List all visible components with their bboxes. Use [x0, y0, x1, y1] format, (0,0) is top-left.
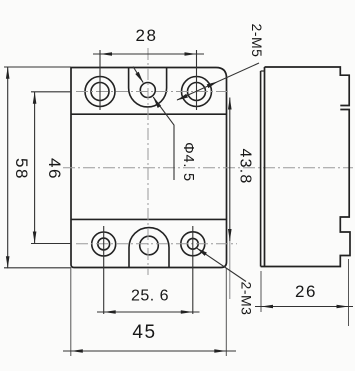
front view bottom flange line	[71, 218, 227, 220]
dimension 45 left arrow	[71, 349, 83, 353]
dimension 43.8 top arrow	[228, 98, 232, 110]
svg-text:46: 46	[45, 158, 64, 180]
dimension 46 bottom extension line	[31, 243, 71, 245]
bottom center mounting dome	[129, 228, 169, 268]
dimension 46 line	[34, 92, 36, 244]
svg-text:58: 58	[12, 158, 31, 180]
top-right hole outer circle	[182, 77, 212, 107]
side view outline	[261, 67, 350, 267]
dimension 25.6 left arrow	[104, 310, 116, 314]
bottom-left hole outer circle	[92, 232, 116, 256]
top-left hole vertical centerline / 28 extension	[99, 50, 101, 110]
dimension 46 bottom arrow	[33, 232, 37, 244]
dimension 28 line	[93, 53, 204, 55]
dimension 58 top arrow	[6, 67, 10, 79]
svg-text:45: 45	[132, 322, 156, 343]
dimension 25.6 right arrow	[181, 310, 193, 314]
dimension 43.8 line	[229, 98, 231, 242]
bottom-left hole inner circle	[98, 238, 110, 250]
leader 2-M5 ne arrow	[207, 82, 218, 89]
top-right hole inner circle	[188, 83, 206, 101]
dimension 43.8 bottom arrow	[228, 229, 232, 241]
top slot circle	[140, 83, 155, 98]
top holes horizontal centerline	[76, 91, 228, 93]
dimension 43.8 tail line	[229, 241, 231, 299]
dimension 28 left arrow	[100, 52, 112, 56]
leader phi4.5 upper segment	[133, 67, 143, 83]
vertical centerline front view	[147, 48, 149, 275]
leader 2-M3 arrow	[196, 248, 207, 256]
dimension 58 top extension line	[4, 66, 71, 68]
dimension 45 right extension line	[225, 268, 227, 356]
dimension 58 bottom arrow	[6, 256, 10, 268]
bottom-right hole inner circle	[187, 238, 198, 249]
top-right hole vertical centerline / 28 extension	[196, 50, 198, 110]
dimension 46 top extension line	[31, 91, 71, 93]
dimension 58 bottom extension line	[4, 267, 71, 269]
bottom dome circle	[140, 236, 159, 255]
dimension 45 line	[63, 350, 236, 352]
svg-text:43.8: 43.8	[237, 149, 254, 185]
dimension 45 right arrow	[214, 349, 226, 353]
dimension 58 line	[7, 67, 9, 268]
bottom-left hole vertical centerline / 25.6 extension	[103, 226, 105, 314]
svg-text:25. 6: 25. 6	[131, 288, 169, 305]
bottom holes horizontal centerline	[76, 243, 237, 245]
leader 2-M5 sw arrow	[177, 94, 188, 101]
svg-text:28: 28	[136, 26, 158, 45]
top-left hole outer circle	[85, 77, 115, 107]
leader 2-M5 line	[177, 63, 259, 100]
front view body outline	[71, 68, 227, 268]
dimension 46 top arrow	[33, 92, 37, 104]
front view top flange line	[71, 113, 227, 115]
svg-text:2-M5: 2-M5	[249, 24, 265, 58]
svg-text:26: 26	[295, 282, 317, 301]
dimension 26 right extension line	[348, 259, 350, 326]
top-left hole inner circle	[91, 83, 109, 101]
top center mounting slot	[129, 68, 167, 107]
leader phi4.5 upper arrow	[135, 72, 143, 83]
bottom-right hole outer circle	[181, 232, 205, 256]
dimension 25.6 line	[97, 311, 200, 313]
side view baseplate top tick	[261, 70, 265, 72]
leader phi4.5 lower arrow	[153, 97, 161, 108]
dimension 26 line	[255, 306, 353, 308]
svg-text:Φ4. 5: Φ4. 5	[180, 142, 196, 182]
leader 2-M3 line	[196, 248, 246, 282]
dimension 26 right arrow	[337, 305, 349, 309]
dimension 28 right arrow	[185, 52, 197, 56]
side view baseplate outer line	[260, 71, 262, 267]
dimension 26 left extension line	[260, 271, 262, 312]
horizontal centerline front+side views	[63, 167, 353, 169]
svg-text:2-M3: 2-M3	[239, 282, 255, 316]
bottom-right hole vertical centerline / 25.6 extension	[192, 226, 194, 314]
dimension 45 left extension line	[70, 268, 72, 356]
leader phi4.5 lower segment	[153, 97, 174, 180]
dimension 26 left arrow	[261, 305, 273, 309]
